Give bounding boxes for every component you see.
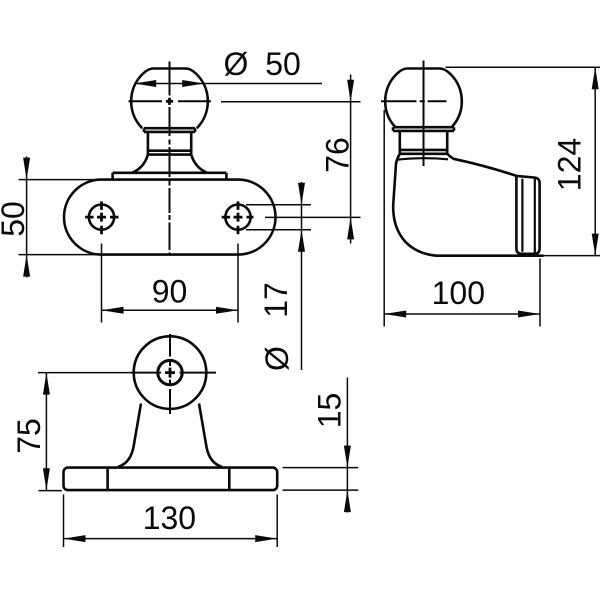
svg-text:Ø: Ø — [259, 346, 295, 371]
svg-text:15: 15 — [312, 393, 348, 429]
svg-text:100: 100 — [432, 275, 485, 311]
svg-text:124: 124 — [552, 138, 588, 191]
svg-text:90: 90 — [152, 274, 188, 310]
svg-text:130: 130 — [143, 500, 196, 536]
svg-text:50: 50 — [265, 46, 301, 82]
svg-text:75: 75 — [11, 418, 47, 454]
svg-text:50: 50 — [0, 201, 31, 237]
svg-text:17: 17 — [258, 282, 294, 318]
svg-text:76: 76 — [320, 137, 356, 173]
svg-text:Ø: Ø — [224, 46, 249, 82]
